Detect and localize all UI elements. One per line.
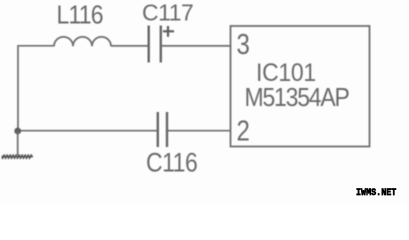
capacitor C116 bbox=[158, 112, 167, 147]
capacitor C117 (polarized) bbox=[149, 26, 161, 63]
svg-text:C116: C116 bbox=[146, 149, 197, 178]
watermark IWMS.NET bbox=[356, 187, 396, 199]
wire: C116 to IC pin 2 bbox=[168, 130, 231, 132]
ground stem wire bbox=[17, 131, 19, 155]
svg-text:C117: C117 bbox=[142, 0, 193, 26]
svg-text:M51354AP: M51354AP bbox=[245, 84, 350, 113]
ground symbol (hatched bar) bbox=[2, 154, 34, 159]
wire: top-left corner horizontal segment bbox=[18, 45, 54, 47]
wire: inductor to C117 bbox=[111, 45, 148, 47]
wire: bottom, node to C116 bbox=[18, 130, 157, 132]
polarity plus sign of C117 bbox=[163, 26, 174, 37]
svg-text:3: 3 bbox=[237, 28, 250, 60]
op-amp/IC box IC101 bbox=[231, 26, 370, 147]
svg-text:L116: L116 bbox=[57, 1, 103, 30]
inductor L116 bbox=[54, 37, 111, 46]
wire: left vertical segment bbox=[17, 45, 19, 131]
node: junction dot bbox=[14, 128, 21, 135]
wire: C117 to IC pin 3 bbox=[162, 45, 231, 47]
svg-text:2: 2 bbox=[237, 115, 250, 147]
